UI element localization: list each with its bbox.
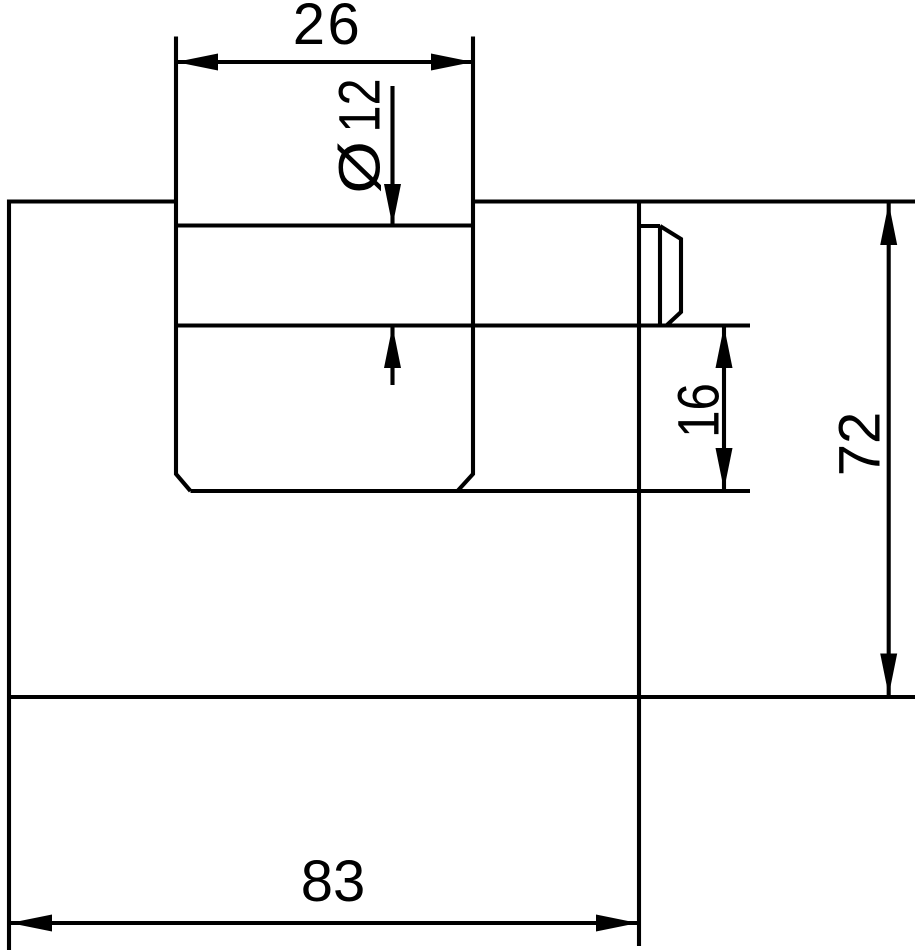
svg-text:12: 12 [329, 78, 393, 132]
svg-text:72: 72 [828, 412, 893, 477]
svg-text:83: 83 [301, 849, 366, 914]
svg-text:Ø: Ø [328, 141, 392, 194]
svg-text:16: 16 [667, 383, 732, 438]
svg-text:26: 26 [293, 0, 363, 57]
